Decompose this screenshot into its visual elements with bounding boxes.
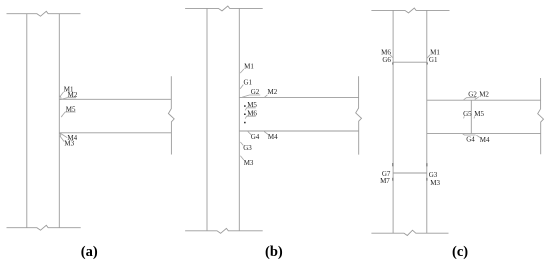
svg-text:G1: G1: [429, 56, 438, 64]
svg-text:G4: G4: [466, 136, 475, 144]
panel (c) beam end break line: [538, 78, 544, 154]
svg-text:(c): (c): [452, 244, 468, 260]
bolt dot 1 (b): [244, 105, 246, 107]
panel (a) column top break line: [7, 11, 81, 16]
panel (a) beam end break line: [168, 76, 174, 154]
leader G3 (c): [426, 163, 428, 166]
leader M3 (b): [240, 156, 243, 160]
leader M1 (c): [427, 55, 430, 58]
leader M4 (a): [60, 133, 67, 138]
svg-text:(b): (b): [265, 244, 283, 260]
panel (b) beam top flange line: [239, 96, 358, 98]
svg-text:(a): (a): [81, 244, 98, 260]
leader M5 (c): [473, 116, 476, 118]
bolt dot 3 (b): [244, 122, 246, 124]
panel (c) column left flange line: [392, 10, 394, 233]
leader M1 (a): [60, 92, 64, 97]
leader M2 (b): [265, 95, 268, 97]
panel (c) beam bottom flange line: [427, 133, 541, 135]
panel (c) beam top flange line: [427, 99, 541, 101]
leader M5 (b): [245, 108, 256, 111]
panel (a) column bottom break line: [7, 225, 81, 230]
panel (c) top continuity plate: [393, 61, 427, 63]
panel (c) bottom continuity plate: [393, 172, 427, 174]
leader M4 (b): [264, 132, 268, 135]
leader G4 (c): [463, 134, 476, 135]
svg-text:M4: M4: [268, 133, 278, 141]
svg-text:M5: M5: [474, 110, 484, 118]
leader G6 (c): [392, 62, 394, 64]
svg-text:G4: G4: [251, 133, 260, 141]
panel (b) beam end break line: [356, 76, 362, 154]
panel (b) column right flange line: [238, 8, 240, 230]
svg-text:M2: M2: [479, 91, 489, 99]
svg-text:G3: G3: [243, 144, 252, 152]
panel (b) column bottom break line: [185, 228, 263, 233]
bolt dot 2 (b): [244, 114, 246, 116]
leader M5 (a): [61, 112, 75, 117]
panel (b) column top break line: [185, 6, 263, 11]
svg-text:G1: G1: [244, 78, 253, 86]
leader G7 (c): [392, 163, 394, 166]
svg-text:M3: M3: [64, 140, 74, 148]
panel (b) column left flange line: [206, 8, 208, 230]
leader G5 (c): [463, 116, 466, 118]
svg-text:M3: M3: [244, 159, 254, 167]
svg-text:M2: M2: [268, 88, 278, 96]
leader G2 (b): [242, 95, 260, 97]
leader M4 (c): [476, 135, 480, 137]
leader G4 (b): [248, 132, 251, 135]
panel (a) beam top flange line: [59, 98, 171, 100]
leader G1 (c): [426, 62, 428, 64]
svg-text:G3: G3: [429, 171, 438, 179]
leader M2 (c): [475, 97, 479, 100]
leader M6 (c): [390, 55, 393, 58]
leader G1 (b): [240, 85, 243, 89]
panel (c) column bottom break line: [371, 230, 448, 235]
leader G2 (c): [464, 98, 476, 100]
weld mark at (a) top beam corner: [60, 96, 62, 99]
leader G3 (b): [240, 142, 243, 146]
svg-text:M3: M3: [430, 179, 440, 187]
leader M1 (b): [240, 69, 244, 73]
weld mark at (a) bottom beam corner: [60, 134, 61, 137]
svg-text:G6: G6: [382, 56, 391, 64]
leader M3 (c): [426, 178, 428, 181]
panel (a) column right flange line: [58, 14, 60, 228]
svg-text:M4: M4: [480, 136, 490, 144]
svg-text:M7: M7: [380, 177, 390, 185]
leader M3 (a): [60, 136, 64, 142]
panel (b) beam bottom flange line: [239, 130, 358, 132]
panel (c) column right flange line: [426, 10, 428, 233]
panel (a) column left flange line: [26, 14, 28, 228]
panel (a) beam bottom flange line: [59, 132, 171, 134]
svg-text:M1: M1: [244, 63, 254, 71]
leader M6 (b): [245, 116, 256, 119]
panel (c) beam splice line: [470, 100, 472, 133]
leader M2 (a): [60, 98, 76, 100]
leader M7 (c): [392, 178, 394, 181]
panel (c) column top break line: [371, 8, 449, 13]
